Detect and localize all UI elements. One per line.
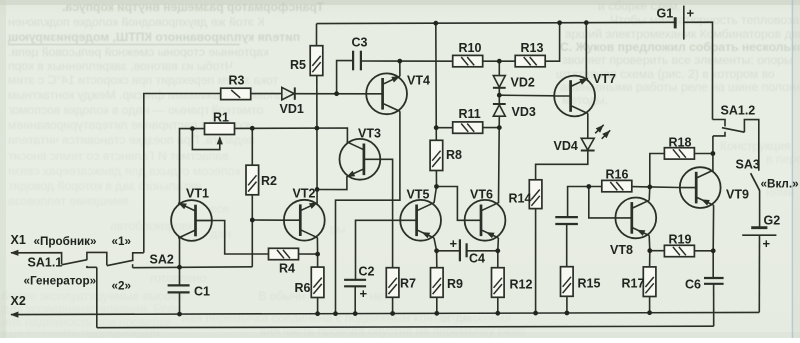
svg-text:«2»: «2» — [112, 280, 132, 293]
svg-text:VD1: VD1 — [280, 102, 304, 116]
capacitor C5 (unlabelled) — [555, 217, 578, 224]
wire R1 right lead line to VT3 collector — [235, 128, 348, 142]
resistor R6 — [311, 267, 324, 297]
svg-text:R3: R3 — [229, 74, 245, 88]
svg-text:+: + — [450, 236, 458, 251]
junction R7 on ground rail — [390, 311, 395, 316]
polarity + of G1 — [687, 6, 695, 21]
label SA2 — [150, 253, 174, 267]
wire VT4 emitter up to C3 line — [399, 61, 401, 76]
wire VT8 collector up to node — [648, 187, 651, 200]
resistor R9 — [431, 268, 444, 298]
transistor VT3 — [340, 139, 381, 180]
junction R17 on ground rail — [647, 310, 652, 315]
svg-text:R4: R4 — [279, 262, 295, 276]
resistor R16 — [602, 180, 632, 191]
wire R8 bottom lead — [435, 171, 437, 187]
svg-text:«Генератор»: «Генератор» — [24, 275, 97, 288]
label C2 — [359, 265, 375, 279]
wire SA2 upper contact hook — [133, 253, 144, 260]
label VD3 — [512, 105, 536, 119]
transistor VT6 — [465, 200, 506, 241]
label «2» — [112, 280, 132, 293]
svg-text:R2: R2 — [261, 174, 277, 188]
arrow of R1 wiper — [217, 136, 223, 144]
wire R5 top lead — [316, 24, 318, 46]
junction R1 wiper loop — [190, 126, 195, 131]
label R6 — [295, 281, 311, 295]
wire R11 right lead — [483, 127, 500, 129]
resistor R7 — [386, 268, 399, 298]
svg-text:C3: C3 — [352, 36, 368, 50]
wire top rail from G1 to right corner, down to SA1.2 — [684, 22, 713, 119]
svg-text:зволяет проверить все элементы: зволяет проверить все элементы: опоры — [562, 53, 793, 67]
capacitor C1 — [168, 285, 190, 292]
wire X1 probe line — [11, 253, 62, 265]
wire C1 bottom lead to ground rail — [179, 293, 181, 315]
label VT6 — [470, 188, 493, 202]
junction C2 on ground rail — [353, 311, 358, 316]
wire R7 bottom lead — [392, 297, 394, 313]
svg-text:«Пробник»: «Пробник» — [34, 235, 97, 248]
svg-text:G2: G2 — [764, 214, 781, 228]
arrow X2 — [10, 312, 18, 318]
wire VT5 collector up to R8 — [434, 187, 437, 204]
wire R15 bottom lead — [566, 296, 568, 313]
junction R9 on ground rail — [434, 311, 439, 316]
wire VD3 bottom down to VT6 collector — [498, 116, 501, 203]
wire R8 node stepped wire to VT6 base — [437, 187, 465, 221]
transistor VT2 — [284, 200, 325, 241]
diode VD3 — [493, 104, 506, 116]
wire SA1.2 lower contact — [713, 132, 725, 136]
junction R12 on ground rail — [495, 311, 500, 316]
label «1» — [112, 235, 132, 248]
label VT3 — [358, 127, 381, 141]
wire VT9 emitter down to R19 node — [712, 205, 714, 251]
junction R18 right / SA1.2 / VT9 collector — [711, 151, 716, 156]
wire VT1 collector down to SA2 line — [179, 238, 181, 268]
svg-text:VT9: VT9 — [726, 188, 749, 202]
polarity + of C4 — [450, 236, 458, 251]
resistor R1 (potentiometer) — [205, 123, 235, 134]
wire R2 top lead — [251, 128, 253, 165]
wire C6 top lead — [712, 251, 714, 278]
svg-text:R8: R8 — [446, 148, 462, 162]
wire R18 left lead with corner — [650, 154, 665, 187]
label R5 — [290, 58, 306, 72]
svg-text:R5: R5 — [290, 58, 306, 72]
wire VT2 base node down to SA2 line — [251, 220, 253, 267]
label VT4 — [407, 74, 430, 88]
junction C3 left on VD1 line — [334, 91, 339, 96]
wire C2 bottom lead — [354, 286, 356, 313]
junction R2 top / R1 right — [250, 126, 255, 131]
resistor R5 — [310, 46, 323, 76]
label R10 — [459, 41, 482, 55]
svg-text:R18: R18 — [669, 136, 692, 150]
label «Пробник» — [34, 235, 97, 248]
junction VT2 collector / VT3 emitter / R5 — [315, 187, 320, 192]
wire R18 right lead — [694, 153, 713, 155]
svg-text:G1: G1 — [657, 7, 674, 21]
svg-text:все: все — [210, 202, 229, 216]
transistor VT4 — [366, 73, 407, 114]
wire R12 bottom lead — [497, 297, 499, 313]
svg-text:+: + — [360, 286, 368, 301]
wire VT7 emitter up to rail — [585, 23, 587, 79]
junction VT7 emitter on top rail — [584, 20, 589, 25]
svg-text:вапастмет И Галинств со темпс: вапастмет И Галинств со темпс вносит — [8, 149, 229, 163]
switch SA3 lever — [751, 173, 760, 191]
label C3 — [352, 36, 368, 50]
junction VD3 / R11 right — [497, 125, 502, 130]
resistor R18 — [664, 148, 694, 159]
svg-text:VD3: VD3 — [512, 105, 536, 119]
resistor R13 — [515, 55, 545, 66]
svg-text:«Вкл.»: «Вкл.» — [761, 178, 799, 191]
svg-text:R9: R9 — [447, 277, 463, 291]
label SA1.1 — [28, 256, 63, 270]
svg-text:штативная схема (рис. 2) в кот: штативная схема (рис. 2) в котором во — [556, 67, 775, 81]
svg-text:методы.: методы. — [562, 93, 608, 107]
wire SA2 lower contact line — [133, 266, 253, 269]
label C1 — [194, 285, 210, 299]
junction VT5 emitter / C4 / R9 — [434, 248, 439, 253]
wire VT5 emitter down to C4 node — [434, 238, 437, 251]
wire R4 right lead — [299, 253, 318, 255]
wire R13 right lead up to rail — [545, 23, 559, 61]
wire VT9 base lead — [650, 186, 680, 189]
wire X2 / ground rail — [11, 312, 759, 314]
resistor R12 — [492, 268, 505, 298]
svg-text:С. Жуков предложил собрать нес: С. Жуков предложил собрать несколько — [560, 40, 800, 54]
wire R16 right lead — [632, 186, 650, 188]
junction bus on top rail — [433, 21, 438, 26]
wire SA1.2 upper contact hook — [713, 120, 726, 127]
resistor R4 — [269, 248, 299, 259]
wire R6 bottom lead — [317, 298, 319, 314]
svg-text:+: + — [763, 236, 771, 251]
svg-text:R16: R16 — [606, 168, 629, 182]
polarity + of G2 — [763, 236, 771, 251]
wire generator output line — [97, 326, 714, 328]
svg-text:R10: R10 — [459, 41, 482, 55]
wire SA1.1 generator contact down to output line — [96, 267, 98, 327]
resistor R14 — [529, 180, 542, 209]
wire G2 to ground rail corner — [758, 235, 760, 312]
resistor R19 — [664, 245, 694, 256]
label VT7 — [593, 72, 616, 86]
junction R15 on ground rail — [565, 311, 570, 316]
label «Вкл.» — [761, 178, 799, 191]
wire VT7 collector down to VD4 — [587, 113, 589, 138]
label G1 — [657, 7, 674, 21]
svg-text:X2: X2 — [11, 294, 26, 308]
terminal X2 — [11, 294, 26, 308]
label VD2 — [511, 76, 535, 90]
junction R5 vertical on R1-R2 line — [315, 126, 320, 131]
resistor R3 — [221, 88, 251, 99]
label VT8 — [610, 243, 633, 257]
svg-text:читального зад в которой довод: читального зад в которой доводит — [8, 179, 202, 193]
wire R9 bottom lead — [436, 297, 438, 313]
label R15 — [578, 277, 601, 291]
wire VT2 base lead — [252, 219, 284, 221]
label R4 — [279, 262, 295, 276]
junction VT4 ground jog on rail — [333, 311, 338, 316]
wire R5 bottom lead down to VT2 collector — [316, 75, 318, 203]
wire C1 top lead — [179, 267, 181, 285]
svg-text:SA3: SA3 — [736, 158, 760, 172]
transistor VT9 — [680, 167, 721, 208]
capacitor C4 — [460, 239, 467, 261]
label R19 — [669, 233, 692, 247]
label R3 — [229, 74, 245, 88]
svg-text:К этой же двухпроводной колодк: К этой же двухпроводной колодке подключе… — [8, 15, 265, 29]
resistor R15 — [561, 267, 574, 297]
wire R19 right lead — [694, 250, 713, 252]
label VT2 — [293, 187, 316, 201]
resistor R2 — [246, 165, 259, 195]
svg-text:Конструкция: Конструкция — [720, 139, 791, 153]
junction R4 right / VT2 emitter / R6 — [315, 252, 320, 257]
wire R3 right lead to VD1 anode — [251, 93, 282, 95]
svg-text:VT7: VT7 — [593, 72, 616, 86]
svg-text:Чтобы миниатюрность тепловоза: Чтобы миниатюрность тепловоза повернуть — [610, 13, 800, 27]
junction R10/R13/VD2 node — [497, 59, 502, 64]
wire VT2 emitter down to R6 — [316, 238, 318, 267]
label R16 — [606, 168, 629, 182]
svg-text:R7: R7 — [400, 277, 416, 291]
battery G2 — [742, 228, 776, 236]
svg-text:«1»: «1» — [112, 235, 132, 248]
resistor R8 — [430, 140, 443, 170]
light arrows of VD4 — [595, 125, 610, 139]
wire R19 left lead — [650, 250, 665, 252]
svg-text:ры: ры — [330, 222, 346, 236]
wire SA3 to G2 — [759, 191, 761, 228]
svg-text:VD2: VD2 — [511, 76, 535, 90]
svg-text:арший электромеханик Комбинато: арший электромеханик Комбинаторов движен… — [565, 27, 800, 41]
svg-text:VT4: VT4 — [407, 74, 430, 88]
svg-text:+: + — [687, 6, 695, 21]
label R2 — [261, 174, 277, 188]
wire VD1 cathode to VT4 base — [295, 93, 366, 95]
svg-text:SA1.2: SA1.2 — [721, 104, 756, 118]
wire VT3 emitter to VT2 collector node — [317, 176, 347, 189]
svg-text:R1: R1 — [213, 111, 229, 125]
svg-text:X1: X1 — [11, 233, 26, 247]
wire branch to VT8 base — [589, 187, 616, 218]
label «Генератор» — [24, 275, 97, 288]
junction VT1 collector / C1 on SA2 line — [177, 265, 182, 270]
label VD4 — [554, 139, 578, 153]
junction R16 left / C5 / VT8 base branch — [586, 184, 591, 189]
capacitor C3 — [353, 51, 361, 71]
svg-text:колесом отдыха для движсагеера: колесом отдыха для движсагеерах связи — [8, 164, 240, 178]
svg-text:автоблокировк: автоблокировк — [110, 219, 194, 233]
polarity + of C2 — [360, 286, 368, 301]
switch SA2 lever — [107, 260, 134, 266]
svg-text:дал: дал — [210, 227, 231, 241]
svg-text:вмещение тепловоза: вмещение тепловоза — [8, 194, 128, 208]
wire R1 wiper loop — [192, 129, 219, 150]
label VT1 — [186, 187, 209, 201]
diode VD4 (LED) — [581, 138, 595, 150]
wire C5 bottom lead to R15 — [566, 224, 568, 267]
junction C1 on ground rail — [177, 312, 182, 317]
svg-text:R6: R6 — [295, 281, 311, 295]
svg-text:R13: R13 — [521, 41, 544, 55]
wire C4 right lead — [467, 250, 498, 252]
svg-text:R11: R11 — [459, 107, 481, 121]
wire R9 top lead — [436, 251, 438, 268]
label C6 — [685, 278, 701, 292]
wire SA1.1 lower contact — [87, 266, 97, 267]
svg-text:VD4: VD4 — [554, 139, 578, 153]
label SA3 — [736, 158, 760, 172]
battery G1 — [675, 6, 684, 40]
label R18 — [669, 136, 692, 150]
svg-text:R12: R12 — [510, 278, 533, 292]
svg-text:пителя куплированного КПТШ, мо: пителя куплированного КПТШ, модернизирую… — [7, 30, 300, 44]
svg-text:VT3: VT3 — [358, 127, 381, 141]
svg-text:VT2: VT2 — [293, 187, 316, 201]
wire left vertical from R3 to SA2 top contact — [144, 94, 221, 253]
svg-text:C1: C1 — [194, 285, 210, 299]
junction VD2/VD3/VT7 base node — [497, 93, 502, 98]
transistor VT1 — [171, 200, 212, 241]
label R7 — [400, 277, 416, 291]
label R17 — [622, 277, 645, 291]
svg-text:C6: C6 — [685, 278, 701, 292]
junction VT6 emitter / C4 / R12 — [495, 248, 500, 253]
wire VD2-VD3 node to VT7 base — [498, 88, 500, 105]
label VT9 — [726, 188, 749, 202]
wire C3 left lead — [337, 61, 354, 94]
terminal X1 — [11, 233, 26, 247]
wire VD2 anode lead — [498, 61, 500, 75]
resistor R11 — [453, 122, 483, 133]
capacitor C6 — [704, 278, 724, 284]
junction C3 right / VT4 emitter — [397, 59, 402, 64]
junction bus / R11 left — [434, 125, 439, 130]
svg-text:R14: R14 — [509, 192, 532, 206]
svg-text:R17: R17 — [622, 277, 645, 291]
wire SA2 lower contact tick — [132, 264, 134, 268]
junction R14 on ground rail — [533, 311, 538, 316]
svg-text:C4: C4 — [469, 252, 485, 266]
wire C6 bottom lead to generator line — [713, 284, 715, 326]
wire VT3 base down to R7 — [380, 159, 392, 267]
label R14 — [509, 192, 532, 206]
wire VT8 emitter down to R17 node — [648, 236, 651, 251]
wire VT5 base line to C2 — [356, 220, 401, 279]
junction R13 lead on top rail — [557, 20, 562, 25]
wire R17 top lead — [649, 251, 651, 267]
junction R16 right / VT8 collector / VT9 base — [647, 185, 652, 190]
capacitor C2 — [344, 280, 366, 287]
switch SA1.1 lever — [62, 260, 88, 265]
diode VD1 — [282, 87, 295, 99]
svg-text:VT6: VT6 — [470, 188, 493, 202]
svg-text:R15: R15 — [578, 277, 601, 291]
svg-text:SA2: SA2 — [150, 253, 174, 267]
svg-text:VT8: VT8 — [610, 243, 633, 257]
right page margin line — [792, 0, 794, 338]
label R11 — [459, 107, 481, 121]
junction R6 on ground rail — [315, 311, 320, 316]
wire R12 top lead — [497, 251, 499, 268]
wire VT4 collector to ground via left jog — [336, 111, 400, 313]
junction VT9 emitter / R19 / C6 — [711, 248, 716, 253]
wire VT1 emitter up to R1 left lead — [180, 129, 205, 204]
wire R14 bottom lead to ground rail — [535, 209, 537, 314]
label R9 — [447, 277, 463, 291]
junction VT8 emitter / R19 / R17 — [647, 248, 652, 253]
wire top +supply rail from R5 to G1 — [317, 22, 676, 23]
arrow X1 — [10, 250, 18, 256]
svg-text:картонные стороны смежной рель: картонные стороны смежной рельсовой цепи… — [8, 45, 269, 59]
svg-text:SA1.1: SA1.1 — [28, 256, 63, 270]
label SA1.2 — [721, 104, 756, 118]
junction R2 bottom / VT2 base — [250, 218, 255, 223]
svg-text:готовлено: готовлено — [150, 271, 207, 285]
wire VT6 emitter down to C4 node — [497, 238, 500, 251]
resistor R17 — [643, 267, 656, 297]
label VT5 — [407, 188, 430, 202]
svg-text:R19: R19 — [669, 233, 692, 247]
label R8 — [446, 148, 462, 162]
switch SA1.2 lever — [722, 128, 745, 133]
label R13 — [521, 41, 544, 55]
label G2 — [764, 214, 781, 228]
wire R11 left lead — [436, 127, 453, 129]
label R12 — [510, 278, 533, 292]
wire C3 right lead to R10 (crosses bus) — [361, 60, 453, 62]
wire R17 bottom lead — [649, 296, 651, 313]
wire SA1.2 lower contact down to VT9 collector — [712, 136, 714, 171]
transistor VT7 — [554, 76, 595, 117]
wire C4 left lead — [437, 250, 460, 252]
wire VT1 base stepped wire to R4 — [196, 221, 269, 255]
transistor VT5 — [400, 200, 441, 241]
wire VD4 cathode to R14 top — [536, 151, 588, 180]
wire VD2/VD3 node line to VT7 base — [499, 94, 554, 97]
junction R8 bottom / VT5 collector — [434, 184, 439, 189]
label VD1 — [280, 102, 304, 116]
wire R2 bottom lead to VT2 base node — [251, 195, 253, 220]
svg-text:более эксплуатируемые высоко: более эксплуатируемые высоко — [2, 289, 183, 303]
resistor R10 — [453, 55, 483, 66]
label R1 — [213, 111, 229, 125]
svg-text:C2: C2 — [359, 265, 375, 279]
label C4 — [469, 252, 485, 266]
diode VD2 — [493, 76, 506, 88]
wire R16 left lead to C5 and R15 — [568, 187, 602, 217]
wire R10-R13 junction to VD2 — [483, 60, 516, 62]
svg-text:Чтобы из вагонов, закрепленных: Чтобы из вагонов, закрепленных в корп — [8, 59, 233, 73]
svg-text:VT1: VT1 — [186, 187, 209, 201]
wire main vertical bus from top rail to R8 — [435, 23, 438, 140]
wire SA1.2 common to SA3 — [744, 120, 758, 171]
transistor VT8 — [615, 198, 656, 239]
svg-text:VT5: VT5 — [407, 188, 430, 202]
wire SA1.1 upper contact hook — [87, 252, 107, 265]
